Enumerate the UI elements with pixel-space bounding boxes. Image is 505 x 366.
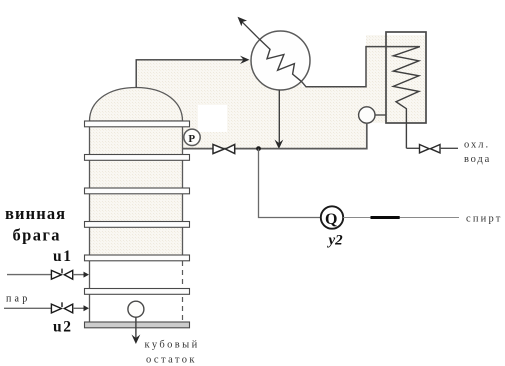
reflux valve bbox=[213, 144, 235, 153]
bottoms outlet pipe bbox=[135, 317, 137, 340]
flow sight glass circle bbox=[359, 107, 375, 123]
reflux return pipe bbox=[183, 123, 367, 148]
vent line diagonal bbox=[240, 20, 259, 39]
pressure gauge P bbox=[184, 129, 200, 145]
valve u1 bbox=[51, 269, 72, 280]
svg-text:u2: u2 bbox=[53, 319, 73, 336]
cooler coil zigzag bbox=[393, 47, 420, 149]
quality sensor Q bbox=[321, 206, 343, 228]
bottoms outlet circle bbox=[128, 301, 144, 317]
condenser zigzag coil bbox=[259, 39, 302, 82]
column base plate bbox=[85, 322, 190, 328]
feed pipe u1 bbox=[7, 274, 51, 276]
background texture region cooler bbox=[366, 35, 426, 123]
valve u1 outlet line bbox=[73, 274, 85, 276]
cooling water valve bbox=[420, 145, 441, 153]
column dome bbox=[90, 88, 183, 122]
thick mark on product line bbox=[371, 216, 400, 219]
product line down bbox=[259, 149, 321, 218]
svg-text:охл.: охл. bbox=[464, 140, 490, 151]
svg-text:пар: пар bbox=[6, 294, 30, 305]
steam pipe u2 bbox=[4, 307, 51, 309]
junction node bbox=[256, 146, 261, 151]
svg-text:спирт: спирт bbox=[466, 214, 503, 225]
tray 4 bbox=[85, 222, 190, 228]
line to water label bbox=[440, 147, 458, 149]
cooling water outlet line bbox=[406, 147, 419, 149]
tray 3 bbox=[85, 188, 190, 194]
bottoms arrowhead bbox=[132, 335, 141, 345]
svg-text:P: P bbox=[188, 133, 195, 145]
svg-text:u1: u1 bbox=[53, 248, 73, 265]
svg-text:винная: винная bbox=[5, 204, 66, 223]
tray 6 bbox=[85, 289, 190, 295]
product line to spirit bbox=[343, 217, 459, 219]
drain arrowhead bbox=[275, 140, 284, 150]
background texture region center bbox=[137, 60, 366, 149]
vapor pipe to cooler bbox=[302, 47, 420, 87]
column body fill bbox=[90, 121, 183, 255]
column right wall dashed lower bbox=[182, 261, 184, 322]
column right wall upper bbox=[182, 121, 184, 261]
valve u2 bbox=[51, 302, 72, 313]
white patch small bbox=[198, 105, 227, 132]
svg-text:остаток: остаток bbox=[146, 355, 197, 366]
svg-text:вода: вода bbox=[464, 154, 491, 165]
cooler vessel bbox=[386, 32, 426, 123]
tray 2 bbox=[85, 155, 190, 161]
white patch right of condenser bbox=[302, 50, 366, 87]
svg-text:Q: Q bbox=[325, 211, 337, 228]
sight glass to cooler line bbox=[375, 114, 386, 116]
svg-text:кубовый: кубовый bbox=[145, 340, 200, 351]
condensate drain pipe bbox=[278, 90, 280, 147]
tray 1 bbox=[85, 121, 190, 127]
valve u2 outlet line bbox=[73, 307, 85, 309]
tray 5 bbox=[85, 255, 190, 261]
arrow into column u1 bbox=[84, 272, 90, 278]
svg-text:y2: y2 bbox=[327, 233, 344, 249]
svg-text:брага: брага bbox=[13, 226, 61, 245]
vapor riser pipe bbox=[136, 60, 247, 88]
arrow into column u2 bbox=[84, 305, 90, 311]
condenser circle U-K bbox=[251, 31, 310, 90]
vent arrowhead bbox=[238, 17, 248, 27]
arrow into condenser bbox=[240, 56, 250, 64]
column left wall bbox=[89, 121, 91, 322]
